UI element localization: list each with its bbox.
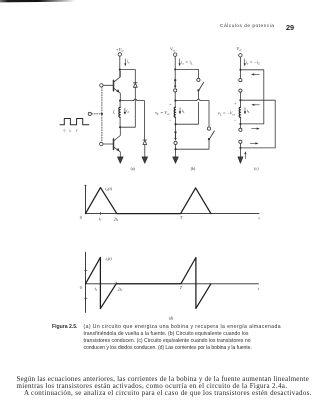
svg-text:iL: iL — [247, 108, 250, 114]
svg-text:2t1: 2t1 — [114, 216, 119, 222]
svg-text:−: − — [234, 118, 237, 123]
svg-text:iL: iL — [126, 108, 129, 114]
svg-text:t1: t1 — [99, 216, 102, 222]
svg-text:is(t): is(t) — [106, 256, 113, 262]
svg-text:t1: t1 — [95, 286, 98, 292]
svg-text:Vcc: Vcc — [236, 46, 242, 52]
svg-text:(b): (b) — [191, 167, 196, 171]
svg-text:t: t — [258, 286, 260, 291]
svg-text:T: T — [180, 285, 183, 290]
svg-text:2t1: 2t1 — [118, 286, 123, 292]
svg-text:iL(t): iL(t) — [105, 186, 112, 192]
svg-text:(a): (a) — [131, 167, 136, 171]
svg-text:0: 0 — [64, 128, 66, 132]
svg-text:+: + — [169, 101, 172, 106]
svg-text:L: L — [112, 110, 116, 115]
svg-text:(d): (d) — [169, 316, 174, 320]
svg-text:vL = Vcc: vL = Vcc — [155, 110, 170, 116]
svg-text:is = iL: is = iL — [181, 60, 193, 66]
svg-text:(c): (c) — [254, 167, 259, 171]
svg-text:iL: iL — [182, 108, 185, 114]
svg-text:t: t — [259, 216, 261, 221]
svg-text:0: 0 — [80, 216, 82, 220]
svg-text:+Vcc: +Vcc — [116, 47, 125, 53]
svg-text:is: is — [127, 58, 130, 64]
svg-text:is = −iL: is = −iL — [246, 60, 261, 66]
svg-text:T: T — [76, 128, 79, 132]
svg-text:T: T — [180, 215, 183, 220]
svg-text:Vcc: Vcc — [170, 47, 176, 53]
svg-text:+: + — [234, 101, 237, 106]
svg-text:vL = −Vcc: vL = −Vcc — [218, 111, 236, 117]
svg-text:0: 0 — [80, 286, 82, 290]
svg-text:t1: t1 — [69, 128, 71, 133]
svg-text:−: − — [169, 118, 172, 123]
